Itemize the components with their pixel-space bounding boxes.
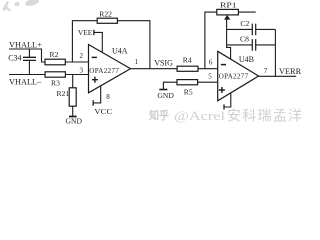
svg-text:R4: R4 <box>183 56 192 65</box>
wire C8 left lead <box>227 44 253 46</box>
svg-text:R22: R22 <box>99 9 112 18</box>
op-amp U4A <box>89 45 131 93</box>
svg-text:VERR: VERR <box>279 67 302 76</box>
svg-text:R21: R21 <box>57 89 70 98</box>
svg-text:RP1: RP1 <box>220 0 237 9</box>
svg-text:知乎: 知乎 <box>148 108 169 122</box>
svg-text:@Acrel: @Acrel <box>174 109 226 123</box>
wire R2 to pin 2 <box>65 61 88 63</box>
svg-text:R2: R2 <box>50 50 59 59</box>
U4A plus marker <box>92 77 98 83</box>
ground bar GND mid <box>159 89 167 91</box>
svg-text:5: 5 <box>208 73 212 81</box>
net VHALL+ wire <box>9 49 45 62</box>
power port bar U4B bottom <box>223 104 225 109</box>
wire R3 to pin 3 <box>65 74 88 76</box>
wire C2 right lead <box>256 28 276 30</box>
svg-text:VHALL–: VHALL– <box>9 77 42 86</box>
op-amp U4B <box>218 51 259 101</box>
svg-text:R5: R5 <box>184 87 193 96</box>
wire R5 to pin 5 <box>198 81 218 83</box>
resistor R4 <box>177 66 198 71</box>
svg-text:GND: GND <box>157 91 174 100</box>
wire feedback loop R22 <box>72 21 149 69</box>
wire U4B bottom power stub <box>224 93 231 107</box>
svg-text:OPA2277: OPA2277 <box>89 67 119 75</box>
wire pin8 to VCC <box>93 86 101 103</box>
power port VEE <box>93 30 95 36</box>
svg-text:安科瑞孟洋: 安科瑞孟洋 <box>227 109 302 125</box>
resistor R5 <box>177 80 198 85</box>
net VHALL- wire <box>9 74 45 76</box>
RP1 wiper arrow <box>224 15 230 20</box>
svg-text:U4A: U4A <box>112 46 128 55</box>
svg-text:C8: C8 <box>240 35 249 44</box>
power port VCC bar <box>92 100 94 106</box>
U4B plus marker <box>219 87 225 93</box>
wire RP1 wiper down <box>227 18 231 59</box>
svg-text:2: 2 <box>80 52 84 60</box>
wire U4A output VSIG <box>131 68 178 70</box>
watermark bottom: 知乎 @Acrel安科瑞孟洋 <box>148 108 302 125</box>
wire R21 stem top <box>72 75 74 88</box>
wire U4B output VERR <box>259 75 297 77</box>
wire R4 to pin 6 <box>198 68 218 70</box>
wire C34 bottom stem <box>28 61 30 75</box>
svg-text:VCC: VCC <box>94 107 112 116</box>
wire RP1 left lead down to pin6 net <box>205 12 217 69</box>
svg-text:C34: C34 <box>8 53 21 62</box>
svg-text:C2: C2 <box>240 19 249 28</box>
capacitor C2 plates <box>252 24 255 36</box>
wire VEE to U4A <box>94 32 102 52</box>
svg-text:OPA2277: OPA2277 <box>219 72 249 80</box>
wire R5 left to GND <box>163 82 177 89</box>
wire cap branch vertical to output <box>274 29 276 76</box>
resistor R21 vertical <box>69 88 76 106</box>
resistor R22 <box>97 18 117 23</box>
svg-text:U4B: U4B <box>239 55 254 64</box>
ground symbol GND left (R21) <box>69 116 77 118</box>
svg-text:VHALL+: VHALL+ <box>9 40 42 49</box>
svg-text:VSIG: VSIG <box>154 58 173 67</box>
watermark top-left fragment <box>2 0 40 12</box>
wire C8 right lead <box>256 44 276 46</box>
svg-text:7: 7 <box>264 67 268 75</box>
U4A minus marker <box>92 56 97 58</box>
U4B minus marker <box>221 64 226 66</box>
svg-text:6: 6 <box>209 58 213 66</box>
wire RP1 right lead <box>238 11 255 13</box>
svg-text:R3: R3 <box>51 79 60 88</box>
capacitor C34 <box>23 57 36 60</box>
potentiometer RP1 <box>217 9 239 15</box>
resistor R2 <box>45 59 65 65</box>
capacitor C8 plates <box>252 39 255 51</box>
resistor R3 <box>45 72 65 77</box>
svg-text:1: 1 <box>135 58 139 66</box>
wire R21 stem bottom <box>72 106 74 116</box>
svg-text:3: 3 <box>80 67 84 75</box>
svg-text:VEE: VEE <box>78 28 93 37</box>
svg-text:GND: GND <box>66 117 83 126</box>
svg-text:8: 8 <box>106 93 110 101</box>
wire C2 left lead <box>227 28 253 30</box>
wire C34 top stem <box>28 49 30 57</box>
